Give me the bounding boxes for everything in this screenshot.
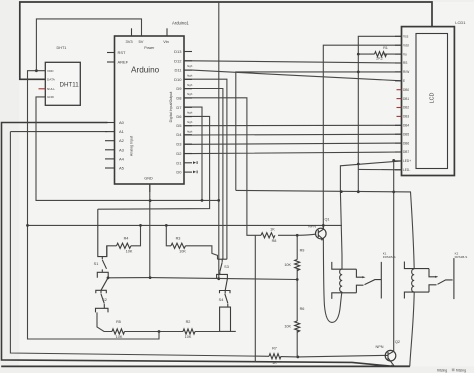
svg-text:FRS1B-S: FRS1B-S bbox=[383, 255, 396, 259]
svg-text:DB4: DB4 bbox=[403, 124, 409, 128]
svg-text:D1: D1 bbox=[176, 160, 182, 165]
svg-text:DATA: DATA bbox=[47, 77, 56, 81]
svg-text:R/W: R/W bbox=[403, 70, 409, 74]
svg-text:RS: RS bbox=[403, 61, 407, 65]
svg-text:DB6: DB6 bbox=[403, 141, 409, 145]
svg-text:Vdd: Vdd bbox=[403, 43, 409, 47]
svg-text:R3: R3 bbox=[176, 236, 181, 240]
svg-text:A5: A5 bbox=[119, 166, 125, 171]
svg-text:5V: 5V bbox=[139, 39, 144, 44]
svg-text:DHT1: DHT1 bbox=[57, 46, 67, 50]
svg-text:high: high bbox=[187, 64, 193, 68]
svg-text:fritzing: fritzing bbox=[437, 369, 447, 373]
svg-text:R6: R6 bbox=[300, 307, 305, 311]
svg-text:D5: D5 bbox=[176, 123, 182, 128]
svg-text:D11: D11 bbox=[174, 68, 182, 73]
svg-text:DB1: DB1 bbox=[403, 97, 409, 101]
svg-text:D9: D9 bbox=[176, 86, 182, 91]
svg-text:A4: A4 bbox=[119, 156, 125, 161]
svg-text:10K: 10K bbox=[179, 249, 186, 253]
svg-text:S2: S2 bbox=[102, 298, 107, 302]
svg-text:Digital Input/Output: Digital Input/Output bbox=[169, 92, 173, 123]
svg-text:A2: A2 bbox=[119, 138, 125, 143]
svg-text:R7: R7 bbox=[272, 347, 277, 351]
svg-text:E: E bbox=[403, 79, 405, 83]
svg-text:10K: 10K bbox=[126, 249, 133, 253]
svg-text:DB5: DB5 bbox=[403, 132, 409, 136]
svg-text:Power: Power bbox=[144, 46, 155, 50]
svg-text:A0: A0 bbox=[119, 120, 125, 125]
svg-text:R4: R4 bbox=[124, 236, 129, 240]
svg-text:VDD: VDD bbox=[47, 69, 54, 73]
svg-text:D7: D7 bbox=[176, 105, 182, 110]
svg-text:NULL: NULL bbox=[47, 87, 55, 91]
svg-text:A1: A1 bbox=[119, 129, 125, 134]
svg-text:LED+: LED+ bbox=[403, 159, 411, 163]
svg-text:high: high bbox=[187, 111, 193, 115]
svg-text:high: high bbox=[187, 120, 193, 124]
svg-text:Analog Input: Analog Input bbox=[130, 136, 134, 156]
svg-text:high: high bbox=[187, 92, 193, 96]
svg-text:R1: R1 bbox=[383, 46, 388, 50]
svg-text:D6: D6 bbox=[176, 114, 182, 119]
svg-text:LCD1: LCD1 bbox=[455, 20, 466, 25]
svg-text:high: high bbox=[187, 74, 193, 78]
svg-text:DB3: DB3 bbox=[403, 115, 409, 119]
svg-text:D12: D12 bbox=[174, 58, 182, 63]
svg-text:Arduino1: Arduino1 bbox=[172, 21, 189, 26]
svg-text:DB7: DB7 bbox=[403, 150, 409, 154]
svg-text:AREF: AREF bbox=[118, 60, 129, 65]
svg-text:fritzing: fritzing bbox=[456, 369, 466, 373]
svg-text:GND: GND bbox=[144, 177, 153, 181]
svg-text:R5: R5 bbox=[116, 320, 121, 324]
svg-text:10K: 10K bbox=[116, 335, 123, 339]
svg-text:S1: S1 bbox=[94, 262, 99, 266]
svg-text:D8: D8 bbox=[176, 96, 182, 101]
svg-text:Vss: Vss bbox=[403, 35, 409, 39]
svg-text:LED-: LED- bbox=[403, 168, 410, 172]
svg-text:D10: D10 bbox=[174, 77, 182, 82]
svg-text:LCD: LCD bbox=[430, 93, 436, 104]
svg-text:Q1: Q1 bbox=[324, 218, 329, 222]
svg-text:Q2: Q2 bbox=[395, 340, 400, 344]
svg-text:DB0: DB0 bbox=[403, 88, 409, 92]
svg-text:GND: GND bbox=[47, 95, 55, 99]
svg-text:DB2: DB2 bbox=[403, 106, 409, 110]
svg-text:RST: RST bbox=[118, 50, 127, 55]
svg-text:Vo: Vo bbox=[403, 52, 407, 56]
svg-text:R2: R2 bbox=[186, 320, 191, 324]
svg-text:D13: D13 bbox=[174, 49, 182, 54]
svg-text:D2: D2 bbox=[176, 151, 182, 156]
svg-text:10K: 10K bbox=[284, 325, 291, 329]
svg-text:NPN: NPN bbox=[375, 345, 383, 349]
svg-text:Arduino: Arduino bbox=[131, 66, 160, 75]
svg-text:1K: 1K bbox=[272, 361, 277, 365]
svg-text:FRS1B-S: FRS1B-S bbox=[455, 255, 468, 259]
svg-text:R8: R8 bbox=[272, 239, 277, 243]
svg-text:S3: S3 bbox=[224, 265, 229, 269]
svg-text:high: high bbox=[187, 83, 193, 87]
svg-text:10K: 10K bbox=[284, 263, 291, 267]
svg-text:D3: D3 bbox=[176, 142, 182, 147]
svg-text:Vin: Vin bbox=[163, 39, 169, 44]
svg-text:S4: S4 bbox=[219, 298, 224, 302]
svg-text:D0: D0 bbox=[176, 170, 182, 175]
svg-text:NPN: NPN bbox=[308, 225, 316, 229]
svg-text:1K: 1K bbox=[270, 228, 275, 232]
svg-text:10K: 10K bbox=[185, 335, 192, 339]
svg-text:A3: A3 bbox=[119, 147, 125, 152]
svg-text:R9: R9 bbox=[300, 249, 305, 253]
svg-text:3V3: 3V3 bbox=[126, 39, 134, 44]
svg-text:DHT11: DHT11 bbox=[60, 81, 80, 88]
svg-text:2K2: 2K2 bbox=[376, 57, 383, 61]
svg-text:D4: D4 bbox=[176, 132, 182, 137]
svg-text:high: high bbox=[187, 129, 193, 133]
